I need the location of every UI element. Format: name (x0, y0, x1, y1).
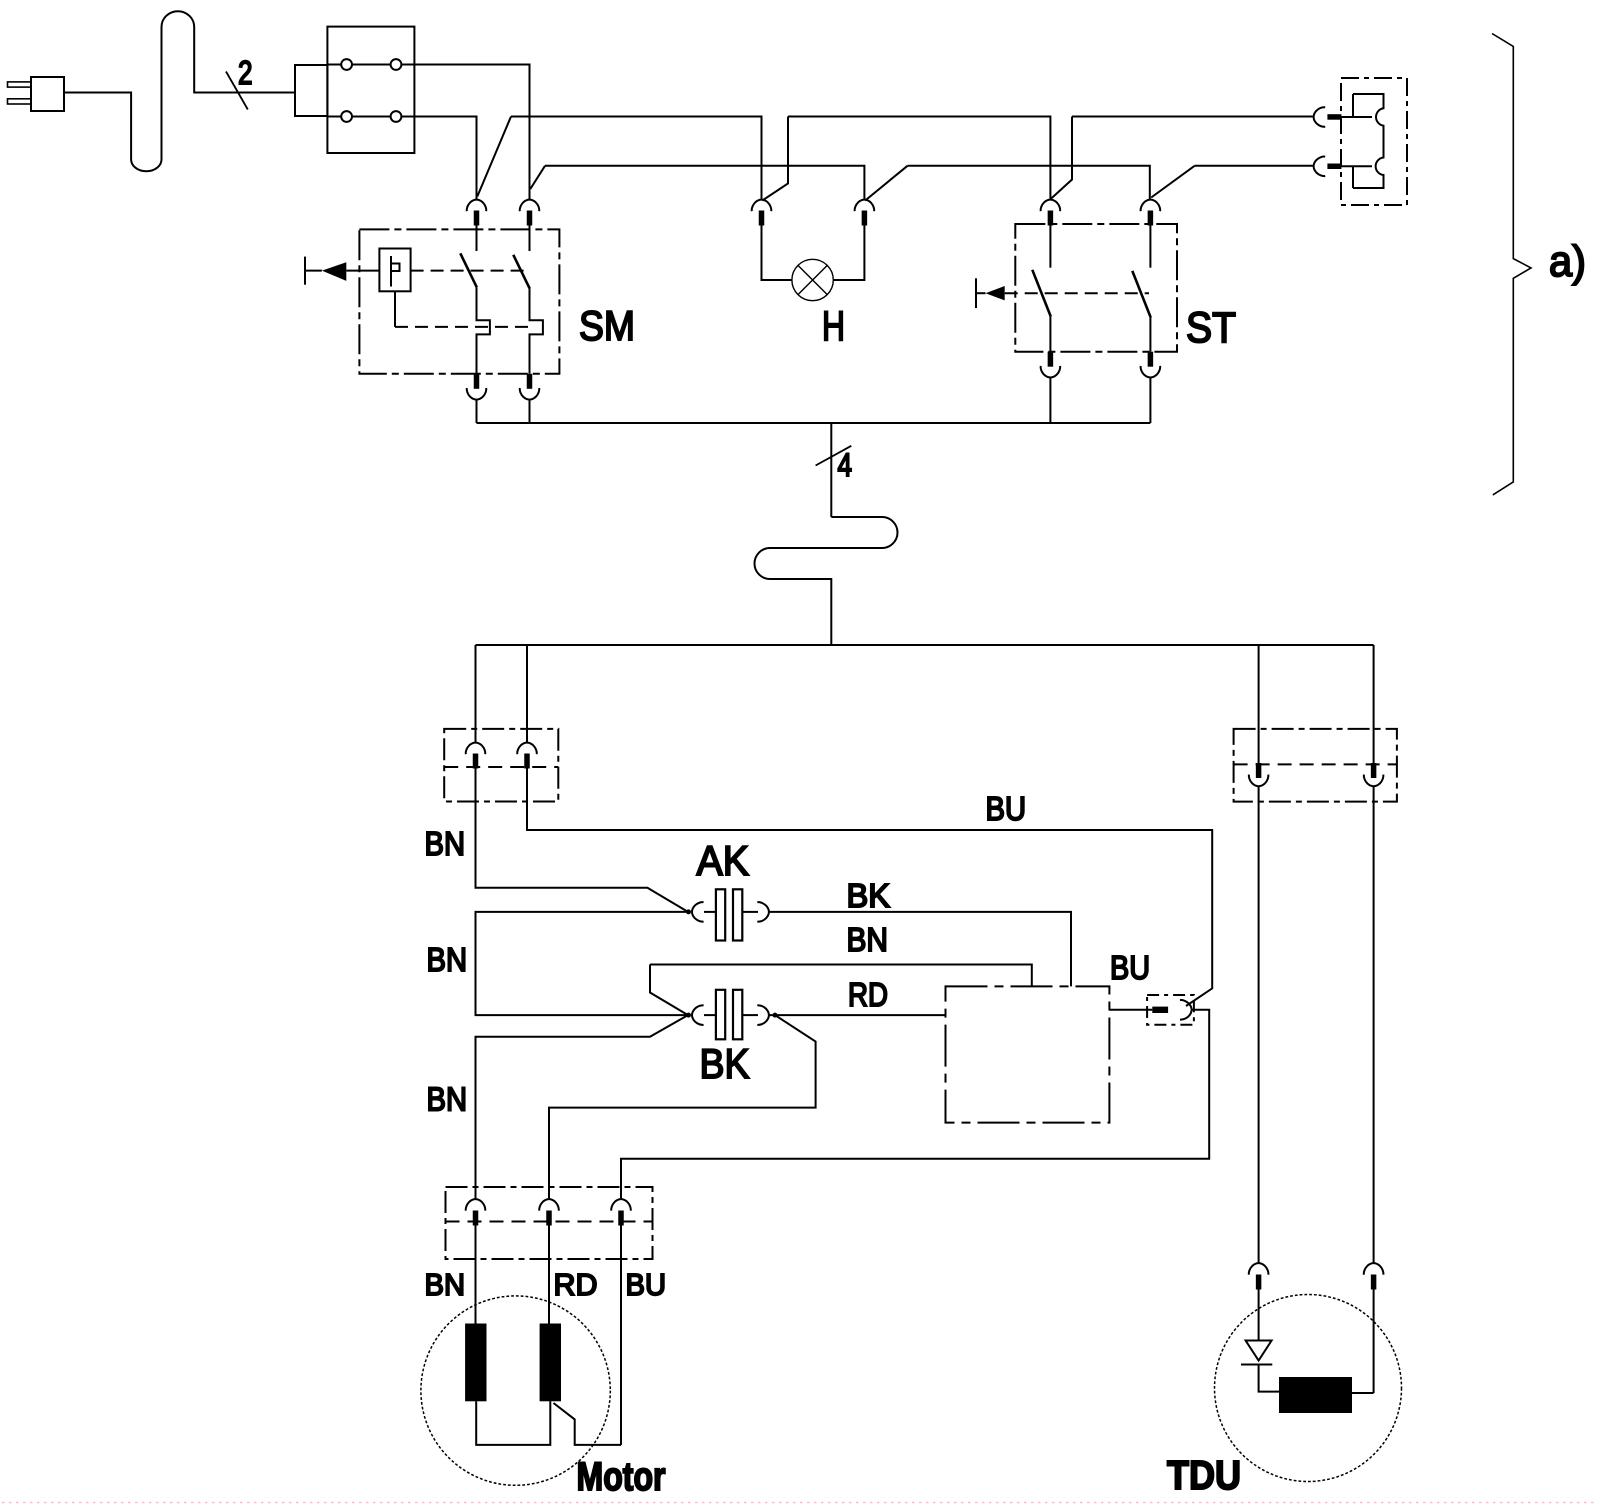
wire chain N: SM pole1 to lamp H left (477, 117, 761, 200)
wire bus to X2 pin 2 (526, 645, 528, 742)
capacitor AK plates (704, 911, 716, 913)
svg-text:BN: BN (427, 941, 468, 978)
svg-text:a): a) (1549, 237, 1586, 286)
wire SM pole1 to bus (476, 400, 478, 423)
wire X3 pin2 to TDU (1373, 787, 1375, 1263)
wire motor winding interconnection (476, 1401, 550, 1445)
wire pressure switch to BU connector (1109, 1009, 1152, 1011)
connector X3 mating line (1234, 763, 1397, 765)
switch SM actuator arrow (305, 270, 322, 272)
capacitor BK socket right (757, 1005, 769, 1025)
connector X1 plug pin 1 (1327, 114, 1341, 120)
wire terminal block row 1 (327, 64, 390, 66)
wire SM pole1 with latch jog (477, 287, 490, 374)
wire ST pole1 fixed contact (1049, 226, 1051, 268)
connector X1 socket contact 1 (1314, 107, 1326, 127)
connector X4 inline housing (1147, 995, 1194, 1025)
wire chain N: lamp H left to ST pole1 (762, 117, 1050, 201)
wire BU from X2 pin2 to X4 connector (527, 769, 1212, 1007)
svg-text:BU: BU (626, 1267, 667, 1302)
terminal block small housing (295, 65, 327, 116)
capacitor BK plates (704, 1014, 716, 1016)
wire ST pole1 to bus (1049, 378, 1051, 423)
connector X1 plug pin 2 (1327, 164, 1341, 170)
capacitor AK socket right (757, 902, 769, 922)
connector X5 contact 3 (611, 1199, 631, 1211)
wire terminal block row 2 (327, 116, 390, 118)
wire chain N: ST pole1 to appliance connector (1051, 117, 1313, 199)
motor M body circle (421, 1296, 610, 1485)
connector contact SM pole2 top (520, 200, 540, 212)
connector contact ST pole2 top (1141, 200, 1161, 212)
svg-text:BN: BN (427, 1081, 468, 1118)
diode in TDU (1258, 1290, 1260, 1341)
mains plug (8, 82, 32, 87)
wire cable slack S-loop (755, 517, 898, 645)
svg-text:BN: BN (425, 825, 466, 862)
wire BU from X4 connector to motor (621, 1010, 1209, 1199)
svg-text:TDU: TDU (1167, 1452, 1241, 1498)
svg-text:SM: SM (579, 302, 635, 349)
section brace a) (1492, 34, 1531, 495)
wire RD from capacitor BK to motor connector (549, 1015, 816, 1198)
terminal block pin 2 (391, 59, 402, 70)
connector X2 housing box (444, 729, 558, 802)
connector contact SM pole2 bottom (527, 374, 533, 389)
wire chain L1: lamp H right to ST pole2 (865, 166, 1150, 201)
switch SM actuator bar (304, 257, 306, 285)
switch SM enclosure (359, 229, 559, 373)
wire motor winding 2 to BU lead (554, 1403, 622, 1445)
wire ST pole2 fixed contact (1149, 226, 1151, 268)
wire H right lead (833, 226, 864, 281)
svg-text:BN: BN (847, 921, 889, 958)
connector contact ST pole1 top (1041, 200, 1061, 212)
page bottom marker line (2, 1502, 1598, 1504)
svg-text:H: H (822, 303, 845, 350)
wire BN from BK junction to motor connector (476, 1015, 689, 1198)
connector contact TDU right (1364, 1263, 1384, 1275)
svg-text:BK: BK (847, 877, 891, 914)
connector contact SM pole1 top (467, 200, 487, 212)
capacitor BK socket left (692, 1005, 704, 1025)
wire mains cable with strain-relief loop (64, 11, 295, 171)
node junction BK right (773, 1013, 778, 1018)
switch ST pole1 blade (1032, 270, 1051, 317)
wire bus to X3 pin 1 (1258, 645, 1260, 763)
connector X5 contact 1 (466, 1199, 486, 1211)
wire bus N from terminal block to SM pole1 (401, 117, 476, 200)
wire AK left to BK left link (476, 912, 689, 1015)
switch ST enclosure (1015, 224, 1177, 352)
wire switch output bus (477, 422, 1151, 424)
switch SM thermal release box (379, 249, 410, 292)
connector contact H left (752, 200, 772, 212)
svg-text:BU: BU (1110, 949, 1150, 986)
switch ST pole2 blade (1132, 271, 1151, 318)
wire X5 pin2 to motor winding 2 (548, 1226, 550, 1324)
connector X3 housing box (1234, 729, 1397, 802)
TDU body circle (1215, 1295, 1402, 1482)
svg-text:BN: BN (425, 1267, 466, 1302)
switch ST actuator arrow (976, 292, 986, 294)
wire BU lead into motor (620, 1226, 622, 1445)
wire X5 pin1 to motor winding 1 (475, 1226, 477, 1324)
terminal block pin 3 (341, 111, 352, 122)
switch SM pole1 blade (460, 253, 477, 287)
svg-text:AK: AK (697, 837, 750, 884)
wire BN from X2 pin1 to capacitor AK (476, 769, 689, 912)
switch SM actuator linkage (411, 270, 527, 272)
wire heater to TDU right lead (1352, 1290, 1374, 1394)
node junction BK left (686, 1013, 691, 1018)
svg-text:2: 2 (238, 54, 253, 91)
svg-text:RD: RD (554, 1267, 598, 1302)
connector X1 housing box (1341, 78, 1407, 205)
connector X3 contact 1 (1256, 763, 1262, 778)
connector X4 pin (1152, 1007, 1168, 1013)
connector X2 contact 1 (466, 743, 486, 755)
wire SM pole2 with latch jog (530, 289, 543, 374)
svg-text:ST: ST (1186, 304, 1236, 352)
connector contact TDU left (1249, 1263, 1269, 1275)
svg-text:BK: BK (700, 1040, 750, 1087)
wire bus L1 from terminal block to SM pole2 (401, 65, 529, 200)
wire diode to heater (1259, 1365, 1279, 1392)
connector X1 socket contact 2 (1314, 157, 1326, 177)
wire H left lead (762, 226, 792, 281)
connector X5 mating line (446, 1221, 653, 1223)
switch ST actuator linkage (1005, 292, 1149, 294)
switch SM pole2 blade (513, 255, 530, 289)
connector X2 contact 2 (517, 743, 537, 755)
wire RD from capacitor BK to pressure switch (770, 1014, 946, 1016)
switch SM thermal release glyph (391, 256, 400, 287)
switch SM release linkage (394, 291, 396, 327)
wire ST pole2 lower (1149, 318, 1151, 352)
connector contact ST pole1 bottom (1048, 352, 1054, 367)
wire chain L1: SM pole2 to lamp H right (530, 166, 864, 199)
wire bus to X3 pin 2 (1373, 645, 1375, 763)
svg-text:RD: RD (848, 976, 888, 1013)
connector contact SM pole1 bottom (474, 374, 480, 389)
terminal block pin 1 (341, 59, 352, 70)
connector X4 socket (1180, 1000, 1192, 1020)
wire 4-core cable drop (830, 423, 832, 517)
wire ST pole2 to bus (1149, 378, 1151, 423)
switch ST actuator bar (975, 278, 977, 308)
wire X3 pin1 to TDU (1258, 787, 1260, 1263)
connector X2 mating line (444, 766, 558, 768)
motor winding 2 (540, 1324, 561, 1402)
wire SM pole2 fixed contact (529, 226, 531, 252)
svg-text:BU: BU (986, 790, 1027, 827)
wire chain L1: ST pole2 to appliance connector (1151, 166, 1313, 198)
2-core cable slash mark (226, 72, 248, 110)
pressure switch box (946, 986, 1110, 1122)
wire BN from BK junction to pressure switch (650, 965, 1032, 1016)
wire SM pole2 to bus (529, 400, 531, 423)
wire BK from capacitor AK to pressure switch (770, 912, 1072, 987)
node junction AK left (686, 909, 691, 914)
motor winding 1 (465, 1324, 486, 1402)
terminal block body (327, 27, 414, 153)
svg-text:4: 4 (838, 447, 853, 483)
4-core cable slash mark (816, 446, 852, 466)
lamp H (792, 259, 833, 300)
connector X5 housing box (446, 1187, 653, 1259)
connector X3 contact 2 (1371, 763, 1377, 778)
connector X1 plug body outline (1353, 94, 1384, 188)
wire SM pole1 fixed contact (476, 226, 478, 252)
wire distribution bus (476, 644, 1374, 646)
connector contact ST pole2 bottom (1148, 352, 1154, 367)
connector X5 contact 2 (539, 1199, 559, 1211)
capacitor AK socket left (692, 902, 704, 922)
TDU heater element (1279, 1377, 1352, 1413)
wire ST pole1 lower (1049, 317, 1051, 352)
svg-text:Motor: Motor (577, 1455, 666, 1499)
wire bus to X2 pin 1 (475, 645, 477, 742)
terminal block pin 4 (391, 111, 402, 122)
connector contact H right (855, 200, 875, 212)
